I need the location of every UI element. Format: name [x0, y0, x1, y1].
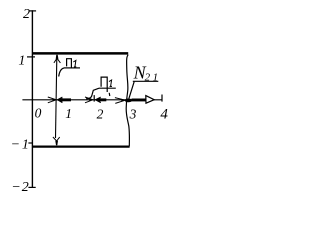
- svg-text:−: −: [11, 137, 20, 152]
- up arrowhead fill: [56, 55, 59, 59]
- glyph П of label P2: [101, 77, 110, 96]
- group C right tip wedge: [121, 99, 125, 102]
- glyph П of label P1: [67, 59, 72, 68]
- group B left-arrow barbs: [95, 97, 101, 103]
- leader line of N21 label: [129, 82, 134, 99]
- y tick -1: [28, 142, 33, 144]
- svg-text:2: 2: [23, 7, 30, 22]
- svg-text:1: 1: [153, 71, 159, 83]
- x-axis arrowhead (open): [146, 96, 154, 104]
- label P1 underline: [64, 67, 80, 69]
- subscript 1 of P2: [109, 80, 112, 87]
- group A left-arrow barbs: [57, 97, 62, 103]
- up arrow barbs: [54, 58, 61, 63]
- svg-text:3: 3: [129, 106, 137, 121]
- svg-text:0: 0: [35, 106, 42, 121]
- group C right-arrow barbs: [115, 98, 125, 104]
- group B right tip wedge: [89, 99, 93, 102]
- group B thick shaft: [98, 98, 107, 101]
- group C thick shaft: [132, 99, 146, 102]
- leader line of P2 label: [86, 88, 99, 99]
- svg-text:1: 1: [65, 106, 72, 121]
- leader line of P1 label: [59, 68, 64, 77]
- svg-text:2: 2: [97, 106, 104, 121]
- svg-text:1: 1: [18, 54, 25, 69]
- y tick -2: [28, 186, 35, 188]
- x tick 2: [93, 95, 95, 102]
- down arrow barbs: [53, 137, 60, 141]
- down arrowhead fill: [55, 141, 58, 145]
- subscript 1 of P1: [73, 60, 76, 67]
- label N21 underline: [133, 80, 159, 82]
- group A left solid arrowhead: [57, 98, 62, 103]
- diagram top line at y=+1: [32, 52, 128, 55]
- y tick +2: [29, 10, 36, 12]
- svg-text:2: 2: [22, 180, 29, 195]
- group A right-arrow barbs: [48, 97, 56, 103]
- x tick 4: [161, 95, 163, 102]
- y-axis: [31, 10, 33, 187]
- group B left solid arrowhead: [95, 98, 100, 103]
- svg-text:2: 2: [145, 71, 151, 83]
- vertical double arrow shaft (x~56): [56, 58, 57, 138]
- diagram bottom line at y=-1: [32, 145, 130, 147]
- torn-edge curve (right boundary): [126, 55, 129, 147]
- x-axis: [22, 99, 162, 101]
- svg-text:−: −: [11, 180, 20, 195]
- y tick +1: [27, 56, 35, 58]
- group B right-arrow barbs: [85, 97, 93, 103]
- label P2 underline: [99, 87, 116, 89]
- node dot at x=3: [125, 99, 132, 103]
- group A right tip wedge: [53, 99, 57, 102]
- svg-text:4: 4: [160, 107, 168, 123]
- svg-text:1: 1: [22, 137, 29, 152]
- group A thick shaft: [60, 98, 71, 101]
